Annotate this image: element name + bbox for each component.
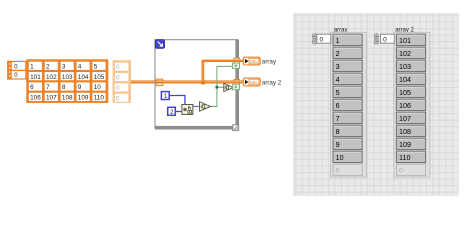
svg-text:107: 107 <box>46 95 57 102</box>
svg-text:104: 104 <box>399 75 411 84</box>
array element array 2[9] = 110 <box>396 151 425 162</box>
array cell value 2 <box>45 62 58 70</box>
svg-text:6: 6 <box>30 84 34 91</box>
svg-text:6: 6 <box>336 101 340 110</box>
array element array[1] = 2 <box>333 47 362 58</box>
dimmed array cell 0 <box>115 73 129 81</box>
dimmed array element array <box>333 164 362 175</box>
array element array 2[1] = 102 <box>396 47 425 58</box>
array cell value 101 <box>29 72 42 80</box>
wire: 2D array from constant to structure tunnel <box>131 80 236 82</box>
svg-text:104: 104 <box>78 74 89 81</box>
svg-text:106: 106 <box>30 95 41 102</box>
svg-text:DBL: DBL <box>250 80 259 85</box>
array cell value 8 <box>61 82 74 90</box>
array cell value 109 <box>77 93 90 101</box>
structure resize grip <box>233 125 239 131</box>
2D array constant frame <box>26 59 108 103</box>
svg-text:101: 101 <box>399 36 411 45</box>
svg-text:3: 3 <box>62 64 66 71</box>
svg-text:0: 0 <box>399 168 403 175</box>
array element array 2[3] = 104 <box>396 73 425 84</box>
svg-text:109: 109 <box>399 140 411 149</box>
svg-text:108: 108 <box>62 95 73 102</box>
numeric constant 2 <box>168 107 176 115</box>
array element array[2] = 3 <box>333 60 362 71</box>
array cell value 4 <box>77 62 90 70</box>
array cell value 10 <box>92 82 105 90</box>
dimmed (unused) array column frame <box>113 60 131 103</box>
structure border <box>155 40 238 128</box>
svg-text:0: 0 <box>336 168 340 175</box>
array element array[3] = 4 <box>333 73 362 84</box>
svg-text:103: 103 <box>62 74 73 81</box>
wire junction dot (orange branch) <box>201 81 205 84</box>
array constant index frame <box>8 61 26 79</box>
array element array[9] = 10 <box>333 151 362 162</box>
svg-text:102: 102 <box>46 74 57 81</box>
output tunnel (orange) to array <box>234 58 240 63</box>
svg-text:8: 8 <box>336 127 340 136</box>
svg-text:101: 101 <box>30 74 41 81</box>
array element array 2[4] = 105 <box>396 86 425 97</box>
svg-text:3: 3 <box>336 62 340 71</box>
wire: constant 1 to reshape icon <box>169 96 185 105</box>
dimmed array element array 2 <box>396 164 425 175</box>
svg-text:1: 1 <box>30 64 34 71</box>
wire stub to indicator array <box>234 59 243 61</box>
svg-text:107: 107 <box>399 114 411 123</box>
array cell value 7 <box>45 82 58 90</box>
svg-text:7: 7 <box>46 84 50 91</box>
svg-text:105: 105 <box>399 88 411 97</box>
svg-text:10: 10 <box>336 153 344 162</box>
svg-text:array 2: array 2 <box>262 80 282 87</box>
svg-text:2: 2 <box>46 64 50 71</box>
dimmed array cell 0 <box>115 94 129 102</box>
svg-text:0: 0 <box>320 36 324 43</box>
reshape array function icon <box>182 105 193 115</box>
array container frame array 2 <box>394 32 430 177</box>
numeric constant 1 <box>161 92 169 100</box>
array element array[6] = 7 <box>333 112 362 123</box>
output tunnel (green) below array tunnel <box>233 63 240 68</box>
triangle function A <box>200 102 211 112</box>
array cell value 107 <box>45 93 58 101</box>
svg-text:7: 7 <box>336 114 340 123</box>
array cell value 102 <box>45 72 58 80</box>
array cell value 9 <box>77 82 90 90</box>
svg-text:4: 4 <box>336 75 340 84</box>
dimmed array cell 0 <box>115 63 129 71</box>
wire stub to indicator array 2 <box>234 80 243 82</box>
array element array[8] = 9 <box>333 138 362 149</box>
svg-text:9: 9 <box>78 84 82 91</box>
array element array 2[5] = 106 <box>396 99 425 110</box>
array element array[4] = 5 <box>333 86 362 97</box>
array cell value 103 <box>61 72 74 80</box>
array cell value 3 <box>61 62 74 70</box>
svg-text:DBL: DBL <box>250 59 259 64</box>
array cell value 106 <box>29 93 42 101</box>
svg-text:110: 110 <box>94 95 105 102</box>
wire: reshape icon to triangle A <box>193 105 200 107</box>
array element array 2[0] = 101 <box>396 34 425 45</box>
wire: green from triangle A output up and right to tunnel <box>210 66 233 106</box>
svg-text:102: 102 <box>399 49 411 58</box>
array index control array 2 <box>374 34 379 39</box>
array element array 2[7] = 108 <box>396 125 425 136</box>
input tunnel on left border <box>156 79 162 85</box>
svg-text:array: array <box>262 59 277 66</box>
array cell value 104 <box>77 72 90 80</box>
wire: constant 2 to reshape icon <box>175 111 182 113</box>
output tunnel (orange) to array 2 <box>234 80 240 85</box>
svg-text:10: 10 <box>94 84 102 91</box>
svg-text:108: 108 <box>399 127 411 136</box>
svg-text:9: 9 <box>336 140 340 149</box>
array cell value 6 <box>29 82 42 90</box>
wire: green branch from junction to triangle B <box>217 86 224 88</box>
svg-text:2: 2 <box>336 49 340 58</box>
svg-text:105: 105 <box>94 74 105 81</box>
indicator terminal array <box>243 57 260 65</box>
array element array 2[8] = 109 <box>396 138 425 149</box>
svg-text:5: 5 <box>336 88 340 97</box>
array element array[5] = 6 <box>333 99 362 110</box>
array element array 2[6] = 107 <box>396 112 425 123</box>
indicator terminal array 2 <box>243 78 260 86</box>
svg-text:109: 109 <box>78 95 89 102</box>
array cell value 105 <box>92 72 105 80</box>
array element array[7] = 8 <box>333 125 362 136</box>
array cell value 110 <box>92 93 105 101</box>
wire junction dot <box>216 86 219 89</box>
svg-text:5: 5 <box>94 64 98 71</box>
output tunnel (green) below array 2 tunnel <box>233 84 240 89</box>
svg-text:103: 103 <box>399 62 411 71</box>
structure sub-diagram icon (blue) <box>155 40 164 49</box>
triangle function B <box>224 83 233 91</box>
svg-text:1: 1 <box>336 36 340 45</box>
svg-text:8: 8 <box>62 84 66 91</box>
svg-text:4: 4 <box>78 64 82 71</box>
array index control array <box>312 34 317 39</box>
dimmed array cell 0 <box>115 83 129 91</box>
front panel background grid <box>293 13 459 196</box>
array cell value 108 <box>61 93 74 101</box>
wire: orange branch up to array tunnel <box>201 60 203 83</box>
svg-text:0: 0 <box>383 36 387 43</box>
svg-text:110: 110 <box>399 153 410 162</box>
svg-text:106: 106 <box>399 101 411 110</box>
array element array[0] = 1 <box>333 34 362 45</box>
array element array 2[2] = 103 <box>396 60 425 71</box>
array container frame array <box>331 32 367 177</box>
array cell value 1 <box>29 62 42 70</box>
array cell value 5 <box>92 62 105 70</box>
